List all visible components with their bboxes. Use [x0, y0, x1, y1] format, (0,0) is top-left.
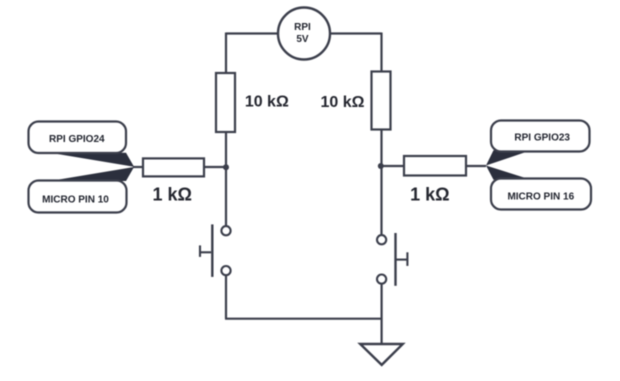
- svg-text:10 kΩ: 10 kΩ: [321, 94, 365, 111]
- svg-text:10 kΩ: 10 kΩ: [245, 94, 289, 111]
- svg-text:5V: 5V: [296, 34, 309, 45]
- svg-text:MICRO PIN 16: MICRO PIN 16: [507, 192, 574, 203]
- svg-text:1 kΩ: 1 kΩ: [152, 185, 191, 205]
- svg-text:RPI GPIO24: RPI GPIO24: [49, 134, 105, 145]
- svg-text:RPI: RPI: [294, 22, 311, 33]
- svg-text:1 kΩ: 1 kΩ: [410, 185, 449, 205]
- svg-text:MICRO PIN 10: MICRO PIN 10: [42, 195, 109, 206]
- svg-text:RPI GPIO23: RPI GPIO23: [514, 133, 570, 144]
